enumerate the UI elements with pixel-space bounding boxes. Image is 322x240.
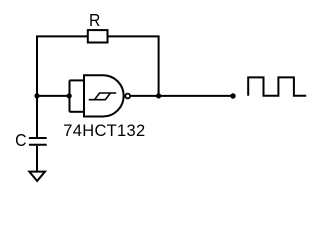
svg-text:R: R bbox=[89, 10, 100, 30]
wire feedback top-left segment bbox=[37, 36, 88, 96]
wire input stub bottom bbox=[70, 111, 85, 113]
wire node to gate input bbox=[37, 95, 70, 97]
capacitor C bottom plate bbox=[29, 144, 47, 146]
wire gate output bbox=[130, 95, 233, 97]
node junction left bbox=[34, 93, 39, 98]
op-amp U1 NAND gate 74HCT132 body bbox=[84, 75, 124, 116]
svg-text:C: C bbox=[15, 130, 26, 150]
node junction gate input bbox=[67, 93, 72, 98]
ground bbox=[29, 172, 45, 181]
wire input stub top bbox=[70, 79, 85, 81]
resistor R bbox=[88, 30, 108, 42]
svg-text:74HCT132: 74HCT132 bbox=[63, 122, 145, 140]
capacitor C top plate bbox=[29, 137, 47, 139]
schmitt trigger hysteresis symbol bbox=[89, 93, 117, 100]
wire capacitor to ground bbox=[36, 146, 38, 172]
wire feedback top-right segment bbox=[108, 36, 159, 96]
output inversion bubble bbox=[125, 94, 130, 99]
square wave output symbol bbox=[248, 77, 306, 95]
wire node down to capacitor bbox=[36, 96, 38, 137]
node output terminal bbox=[230, 93, 235, 98]
wire input connector vertical bbox=[69, 80, 71, 111]
node junction feedback right bbox=[156, 93, 161, 98]
